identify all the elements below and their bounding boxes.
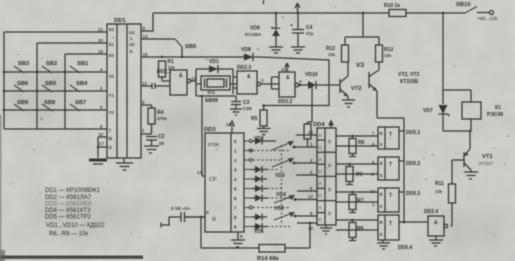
svg-text:T: T — [389, 132, 392, 138]
svg-text:VD5: VD5 — [274, 206, 284, 212]
svg-text:B: B — [328, 163, 331, 168]
svg-text:SB9: SB9 — [17, 100, 29, 106]
svg-text:К1: К1 — [495, 105, 501, 111]
svg-text:14: 14 — [197, 170, 202, 175]
svg-text:VD10: VD10 — [305, 72, 318, 78]
svg-text:X0: X0 — [109, 53, 115, 58]
svg-text:VD3: VD3 — [275, 173, 285, 179]
svg-text:DD2.4: DD2.4 — [424, 209, 438, 215]
svg-text:R10 1к: R10 1к — [384, 3, 400, 9]
svg-text:17: 17 — [99, 141, 104, 146]
svg-text:DD4 — К561КТ3: DD4 — К561КТ3 — [45, 208, 91, 214]
svg-text:X1: X1 — [109, 42, 115, 47]
svg-text:VD1...VD10 — КД522: VD1...VD10 — КД522 — [46, 223, 105, 229]
svg-text:CP: CP — [209, 177, 217, 183]
svg-text:19: 19 — [98, 49, 103, 54]
svg-text:VD8: VD8 — [241, 47, 251, 53]
svg-text:10: 10 — [308, 226, 313, 231]
svg-text:T: T — [109, 128, 112, 133]
svg-text:КТ3107: КТ3107 — [479, 161, 494, 166]
svg-text:DD5.4: DD5.4 — [398, 245, 412, 251]
svg-text:C2: C2 — [158, 134, 165, 140]
svg-text:B: B — [328, 211, 331, 216]
svg-text:VD2: VD2 — [254, 136, 264, 142]
svg-text:&: & — [247, 74, 251, 80]
svg-text:T: T — [389, 193, 392, 199]
svg-text:SB8: SB8 — [44, 100, 56, 106]
svg-text:SB2: SB2 — [46, 61, 57, 67]
svg-text:&: & — [286, 75, 290, 81]
svg-text:DD2.3: DD2.3 — [237, 65, 251, 71]
svg-text:14: 14 — [281, 67, 286, 72]
svg-text:VD4: VD4 — [276, 192, 286, 198]
svg-text:T: T — [389, 162, 392, 168]
svg-text:SB6: SB6 — [17, 81, 29, 87]
svg-text:SB10: SB10 — [456, 2, 471, 8]
svg-text:R11: R11 — [435, 181, 444, 187]
svg-text:&: & — [434, 220, 438, 226]
svg-text:12: 12 — [370, 189, 375, 194]
svg-text:12: 12 — [142, 81, 147, 86]
svg-text:SB5: SB5 — [45, 81, 57, 87]
svg-text:R14 68к: R14 68к — [257, 256, 279, 261]
svg-text:DD2.2: DD2.2 — [278, 99, 292, 105]
svg-text:SB3: SB3 — [18, 61, 30, 67]
svg-text:VT1: VT1 — [482, 154, 493, 160]
svg-text:21: 21 — [98, 27, 103, 32]
svg-text:SB4: SB4 — [76, 81, 88, 87]
svg-text:6809: 6809 — [205, 98, 219, 104]
svg-text:R6: R6 — [358, 140, 365, 146]
svg-text:R7: R7 — [357, 198, 364, 204]
svg-text:10к: 10к — [328, 52, 336, 57]
svg-text:R9: R9 — [356, 172, 363, 178]
svg-text:B: B — [328, 187, 331, 192]
svg-text:10к: 10к — [384, 53, 392, 58]
svg-text:VD7: VD7 — [423, 108, 433, 114]
svg-text:DD5.3: DD5.3 — [406, 191, 420, 197]
svg-text:15: 15 — [204, 210, 209, 215]
svg-text:470к: 470к — [157, 116, 167, 121]
svg-text:DD2 — К561ЛА7: DD2 — К561ЛА7 — [45, 195, 92, 201]
svg-text:Y0: Y0 — [109, 74, 115, 79]
svg-text:SB7: SB7 — [75, 100, 86, 106]
svg-text:S: S — [380, 173, 383, 178]
svg-text:68: 68 — [159, 141, 164, 146]
svg-text:DD1 — КР1008ВЖ1: DD1 — КР1008ВЖ1 — [45, 188, 101, 194]
svg-text:Y2: Y2 — [109, 110, 115, 115]
svg-text:X2: X2 — [109, 27, 115, 32]
svg-text:DD5 — К561ТР2: DD5 — К561ТР2 — [45, 215, 92, 221]
svg-text:VD9: VD9 — [250, 26, 260, 32]
svg-text:0,68: 0,68 — [243, 106, 252, 111]
svg-text:T: T — [389, 221, 392, 227]
svg-text:R: R — [212, 217, 216, 223]
svg-text:DD3: DD3 — [204, 127, 216, 133]
svg-text:+9В...12В: +9В...12В — [477, 16, 497, 21]
svg-text:CT10: CT10 — [208, 142, 219, 147]
svg-text:&: & — [179, 73, 183, 79]
svg-text:ЗП1: ЗП1 — [207, 90, 216, 95]
svg-text:D: D — [130, 49, 133, 54]
svg-text:V3: V3 — [356, 62, 364, 69]
svg-text:К SB «О»: К SB «О» — [171, 206, 191, 211]
svg-text:DD3 — К561ИЕ8: DD3 — К561ИЕ8 — [45, 202, 92, 208]
svg-text:SB1: SB1 — [77, 61, 89, 67]
svg-text:U1: U1 — [129, 30, 135, 35]
svg-text:VD6: VD6 — [254, 229, 264, 235]
svg-text:16: 16 — [226, 122, 231, 127]
svg-text:R5: R5 — [251, 116, 258, 122]
svg-text:VT2: VT2 — [351, 86, 362, 92]
svg-text:КТ315Б: КТ315Б — [400, 79, 419, 85]
svg-text:10: 10 — [98, 132, 103, 137]
svg-text:SB0: SB0 — [185, 44, 196, 50]
svg-text:+: + — [290, 23, 293, 29]
svg-text:14: 14 — [143, 34, 148, 39]
svg-text:КС156А: КС156А — [245, 32, 262, 37]
svg-text:S: S — [380, 204, 383, 209]
svg-text:DD1: DD1 — [114, 18, 126, 24]
svg-text:R8: R8 — [357, 226, 364, 232]
svg-text:20: 20 — [98, 38, 103, 43]
svg-text:19: 19 — [143, 52, 148, 57]
svg-text:VD1: VD1 — [209, 59, 219, 65]
svg-text:G: G — [109, 145, 113, 150]
svg-text:12: 12 — [308, 194, 313, 199]
svg-text:DD5.1: DD5.1 — [406, 130, 420, 136]
svg-text:Y1: Y1 — [109, 93, 115, 98]
svg-text:VT2, VT3: VT2, VT3 — [398, 72, 419, 78]
svg-text:47µ: 47µ — [306, 31, 314, 36]
svg-text:U2: U2 — [129, 42, 135, 47]
svg-text:DD4: DD4 — [313, 122, 325, 128]
svg-text:S: S — [380, 232, 383, 237]
svg-text:S: S — [380, 142, 383, 147]
svg-text:DD2.1: DD2.1 — [157, 69, 171, 75]
svg-text:M: M — [109, 136, 113, 141]
svg-text:10к: 10к — [435, 189, 443, 194]
svg-text:DD5.2: DD5.2 — [406, 161, 420, 167]
svg-text:РЭС49: РЭС49 — [487, 112, 503, 118]
svg-text:R6...R9 — 10к: R6...R9 — 10к — [49, 232, 88, 238]
svg-text:B: B — [328, 139, 331, 144]
